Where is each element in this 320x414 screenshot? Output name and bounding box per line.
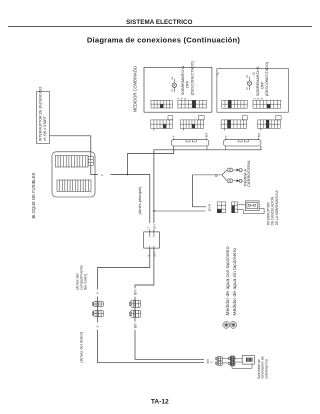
svg-text:(DESCONECTADO): (DESCONECTADO) [265, 61, 269, 96]
svg-text:SOBREMARCHA: SOBREMARCHA [181, 65, 185, 95]
svg-text:Y: Y [209, 361, 213, 363]
svg-text:Medidor de agua sin tacómetro: Medidor de agua sin tacómetro [232, 248, 238, 316]
svg-text:B/Y: B/Y [257, 132, 261, 137]
svg-text:TA-12: TA-12 [151, 399, 169, 406]
svg-text:del motor): del motor) [83, 274, 87, 290]
svg-text:B/Y: B/Y [153, 224, 157, 229]
svg-text:BLOQUE DE FUSIBLES: BLOQUE DE FUSIBLES [31, 172, 36, 218]
svg-text:(Arnés del motor): (Arnés del motor) [78, 331, 83, 363]
svg-text:DE LA SOBREMARCHA: DE LA SOBREMARCHA [275, 190, 279, 226]
svg-text:B/Y: B/Y [153, 252, 157, 257]
svg-text:B/Y: B/Y [133, 289, 137, 295]
svg-text:MEDIDOR COMBINADO: MEDIDOR COMBINADO [132, 65, 137, 112]
svg-text:*1: *1 [216, 72, 220, 75]
svg-text:Diagrama de conexiones (Contin: Diagrama de conexiones (Continuación) [87, 35, 241, 44]
svg-text:B/Y: B/Y [208, 206, 212, 211]
svg-text:INTERRUPTOR DE ENCENDIDO: INTERRUPTOR DE ENCENDIDO [38, 87, 42, 142]
svg-text:sobremarcha: sobremarcha [264, 359, 268, 379]
svg-text:SOBREMARCHA: SOBREMARCHA [256, 66, 260, 96]
svg-text:CARROCERIA: CARROCERIA [246, 160, 251, 187]
svg-text:OFF: OFF [260, 81, 264, 89]
svg-text:OFF: OFF [186, 80, 190, 88]
svg-text:(DESCONECTADO): (DESCONECTADO) [190, 60, 194, 95]
svg-text:Medidor de agua con tacómetro: Medidor de agua con tacómetro [225, 246, 231, 315]
svg-text:SISTEMA ELECTRICO: SISTEMA ELECTRICO [126, 19, 193, 26]
svg-text:Y: Y [172, 135, 176, 137]
svg-text:B/Y: B/Y [133, 322, 137, 328]
svg-text:en ON o START: en ON o START [43, 116, 47, 140]
svg-text:Y: Y [224, 135, 228, 137]
svg-text:B: B [207, 204, 211, 206]
svg-text:Y: Y [146, 227, 150, 229]
svg-text:B/Y: B/Y [204, 132, 208, 137]
svg-text:(Arnés principal): (Arnés principal) [138, 186, 142, 214]
